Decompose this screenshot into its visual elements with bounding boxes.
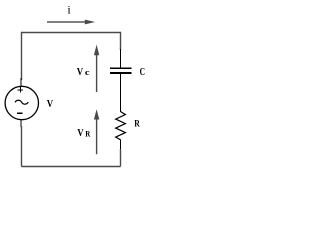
wire bottom [22, 166, 121, 168]
resistor R zigzag [116, 112, 126, 140]
wire resistor bottom lead [120, 140, 122, 151]
svg-text:V: V [47, 99, 54, 110]
svg-text:R: R [134, 119, 140, 129]
node Vc arrow (up) [94, 45, 99, 92]
wire right upper (top corner down) [120, 32, 122, 50]
svg-text:i: i [67, 2, 71, 16]
wire capacitor top lead [120, 49, 122, 68]
voltage source V (AC) [5, 86, 38, 119]
svg-text:c: c [85, 67, 90, 77]
current arrow i (top) [47, 20, 95, 25]
svg-text:V: V [77, 128, 84, 139]
node VR arrow (up) [94, 109, 99, 154]
wire source top lead [20, 78, 22, 87]
wire left upper (top corner down to source) [21, 32, 23, 80]
plus terminal [17, 87, 23, 93]
minus terminal [17, 112, 22, 114]
wire left lower (source to bottom corner) [20, 120, 22, 128]
svg-text:V: V [77, 67, 84, 78]
sine symbol [15, 100, 28, 104]
svg-text:C: C [140, 67, 145, 78]
wire capacitor-to-resistor [120, 74, 122, 113]
wire top (left corner to right corner) [22, 32, 121, 34]
capacitor C plates [110, 67, 131, 74]
wire right lower (to bottom corner) [120, 149, 122, 167]
svg-text:R: R [85, 129, 90, 138]
